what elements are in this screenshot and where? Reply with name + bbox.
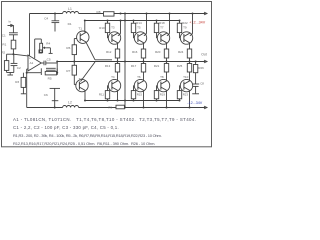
svg-text:R22: R22: [182, 21, 188, 25]
svg-text:A1: A1: [30, 61, 34, 65]
svg-text:Out: Out: [201, 53, 206, 57]
svg-text:In: In: [9, 20, 12, 24]
svg-text:R2: R2: [1, 51, 5, 55]
svg-text:R25: R25: [177, 64, 183, 68]
svg-text:C6: C6: [44, 93, 48, 97]
svg-text:R16: R16: [132, 50, 138, 54]
svg-text:R12: R12: [106, 50, 112, 54]
svg-text:R3: R3: [15, 80, 19, 84]
svg-text:R15: R15: [137, 93, 143, 97]
svg-text:R9: R9: [108, 105, 112, 109]
svg-text:T10: T10: [183, 75, 189, 79]
svg-text:R7: R7: [66, 69, 70, 73]
svg-text:R14: R14: [136, 21, 142, 25]
svg-text:D1: D1: [68, 22, 72, 26]
svg-text:R4: R4: [46, 42, 50, 46]
svg-text:+: +: [29, 56, 31, 60]
svg-text:R20: R20: [155, 50, 161, 54]
svg-text:-12...34V: -12...34V: [187, 101, 203, 105]
svg-text:+12...34V: +12...34V: [189, 20, 205, 24]
svg-text:R1,R3 - 200, R2 - 39k, R4 - 10: R1,R3 - 200, R2 - 39k, R4 - 100k, R5 - 2…: [13, 133, 162, 138]
svg-text:T9: T9: [183, 26, 187, 30]
svg-text:T4: T4: [111, 75, 115, 79]
svg-text:R11: R11: [99, 93, 104, 97]
svg-text:T5: T5: [137, 26, 141, 30]
svg-text:R8: R8: [97, 10, 101, 14]
svg-text:L2: L2: [68, 101, 72, 105]
svg-text:R21: R21: [154, 64, 160, 68]
svg-text:T8: T8: [160, 75, 164, 79]
svg-text:R10: R10: [99, 26, 105, 30]
svg-text:R13: R13: [105, 64, 111, 68]
svg-text:R24: R24: [178, 50, 184, 54]
svg-text:C5: C5: [47, 58, 51, 62]
svg-text:C1: C1: [2, 34, 6, 38]
svg-text:R26: R26: [198, 66, 204, 70]
svg-text:T3: T3: [111, 26, 115, 30]
svg-text:R17: R17: [131, 64, 137, 68]
svg-text:-: -: [29, 67, 30, 71]
svg-text:T7: T7: [160, 26, 164, 30]
svg-text:R12,R13,R16,R17,R20,R21,R24,R2: R12,R13,R16,R17,R20,R21,R24,R25 - 0,51 O…: [13, 141, 155, 146]
svg-text:R19: R19: [160, 93, 166, 97]
svg-text:A1 - TL081CN, TL071CN. T1,T4: A1 - TL081CN, TL071CN. T1,T4,T6,T8,T10 -…: [13, 117, 196, 122]
svg-text:C8: C8: [200, 81, 204, 85]
svg-text:R18: R18: [159, 21, 165, 25]
svg-text:R6: R6: [66, 46, 70, 50]
svg-text:T1: T1: [78, 26, 82, 30]
svg-text:R1: R1: [2, 42, 6, 46]
svg-text:R23: R23: [183, 93, 189, 97]
svg-text:L1: L1: [68, 7, 72, 11]
svg-text:T2: T2: [79, 77, 83, 81]
svg-text:R5: R5: [48, 76, 52, 80]
svg-text:C1 - 2,2, C2 - 100 pF, C3 - 33: C1 - 2,2, C2 - 100 pF, C3 - 330 pF, C4, …: [13, 125, 119, 130]
svg-text:T6: T6: [137, 75, 141, 79]
svg-text:C4: C4: [44, 16, 48, 20]
svg-text:C2: C2: [17, 66, 21, 70]
